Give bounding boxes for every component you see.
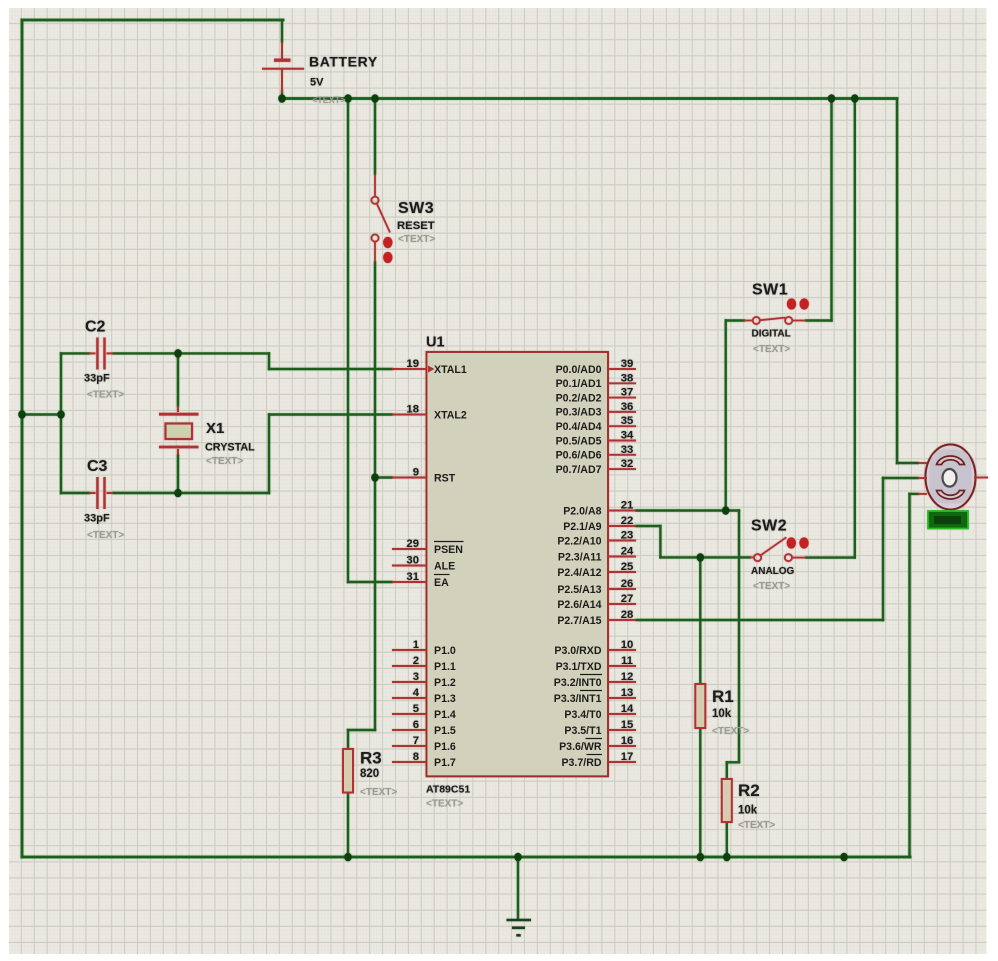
wire cap column vertical: [60, 353, 62, 493]
wire RST node to pin 9: [375, 476, 392, 478]
junction SW2 / top rail: [851, 94, 859, 103]
svg-text:P2.3/A11: P2.3/A11: [558, 551, 602, 563]
svg-text:DIGITAL: DIGITAL: [752, 329, 791, 340]
svg-text:P3.4/T0: P3.4/T0: [564, 709, 601, 721]
svg-text:<TEXT>: <TEXT>: [738, 820, 775, 831]
svg-text:RESET: RESET: [397, 220, 435, 232]
svg-text:P2.1/A9: P2.1/A9: [563, 521, 601, 533]
svg-text:29: 29: [406, 538, 419, 550]
svg-text:P0.2/AD2: P0.2/AD2: [556, 392, 602, 404]
motor pin stubs: [918, 463, 988, 494]
svg-text:11: 11: [621, 655, 633, 667]
svg-text:5V: 5V: [310, 77, 324, 89]
svg-text:33: 33: [621, 444, 634, 456]
junction SW1 / top rail: [828, 94, 836, 103]
wire to SW2 left terminal: [660, 556, 750, 558]
svg-text:5: 5: [413, 703, 419, 715]
junction R1 / ground rail: [697, 853, 705, 862]
svg-text:SW2: SW2: [751, 518, 787, 535]
svg-text:8: 8: [413, 751, 419, 763]
pin 9 RST: [392, 477, 427, 479]
svg-text:R3: R3: [360, 749, 382, 768]
junction R3 / ground rail: [344, 853, 352, 862]
wire battery top lead upper: [281, 20, 283, 42]
wire to motor pin 1: [897, 462, 918, 464]
svg-text:17: 17: [621, 751, 634, 763]
battery BATTERY 5V: [262, 42, 304, 93]
wire to pin 18 XTAL2: [269, 413, 392, 415]
pin 11 P3.1/TXD: [608, 665, 636, 667]
svg-text:34: 34: [621, 430, 634, 442]
svg-text:4: 4: [413, 687, 420, 699]
overline INT0: [580, 674, 602, 676]
junction battery / top rail: [278, 94, 286, 103]
pin 15 P3.5/T1: [608, 729, 636, 731]
pin 30 ALE: [392, 565, 427, 567]
wire pin 28 out: [636, 619, 883, 621]
svg-text:<TEXT>: <TEXT>: [398, 234, 435, 245]
svg-text:P0.0/AD0: P0.0/AD0: [556, 364, 602, 376]
junction SW3 / top rail: [371, 94, 379, 103]
svg-text:P0.6/AD6: P0.6/AD6: [556, 450, 602, 462]
svg-text:25: 25: [621, 561, 634, 573]
wire top power rail: [282, 97, 897, 100]
pin 2 P1.1: [392, 665, 427, 667]
wire R2 bottom lead to rail: [726, 824, 728, 857]
svg-text:C3: C3: [87, 458, 108, 475]
wire RST node down: [374, 478, 376, 731]
pin 3 P1.2: [392, 681, 427, 683]
svg-text:P2.0/A8: P2.0/A8: [563, 505, 601, 517]
overline EA: [434, 574, 450, 576]
wire jog to R2: [727, 761, 739, 763]
svg-text:33pF: 33pF: [84, 372, 110, 384]
wire SW2 to top rail: [854, 99, 856, 558]
pin 18 XTAL2: [392, 414, 427, 416]
svg-text:P2.6/A14: P2.6/A14: [557, 599, 601, 611]
svg-text:24: 24: [621, 546, 634, 558]
svg-text:2: 2: [413, 655, 419, 667]
svg-text:12: 12: [621, 671, 634, 683]
pin 36 P0.3/AD3: [608, 411, 636, 413]
wire C3 to corner: [113, 492, 269, 494]
wire R1 bottom lead to rail: [699, 728, 701, 857]
svg-text:14: 14: [621, 703, 634, 715]
svg-text:R2: R2: [738, 781, 760, 800]
pin 24 P2.3/A11: [608, 556, 636, 558]
pin 6 P1.5: [392, 729, 427, 731]
wire motor pin 3 to ground rail: [908, 494, 910, 857]
wire left rail to cap column: [22, 413, 61, 415]
svg-text:9: 9: [413, 467, 419, 479]
svg-text:P2.4/A12: P2.4/A12: [557, 567, 601, 579]
svg-text:P0.1/AD1: P0.1/AD1: [556, 378, 602, 390]
svg-text:P1.1: P1.1: [434, 661, 456, 673]
svg-text:SW1: SW1: [752, 282, 788, 299]
pin 39 P0.0/AD0: [608, 368, 636, 370]
svg-text:<TEXT>: <TEXT>: [712, 726, 749, 737]
svg-text:PSEN: PSEN: [434, 544, 463, 556]
svg-text:X1: X1: [206, 420, 224, 437]
junction ground rail dot: [840, 853, 848, 862]
overline INT1: [580, 690, 602, 692]
svg-text:37: 37: [621, 387, 634, 399]
junction cap column: [57, 410, 65, 419]
pin 12 P3.2/INT0: [608, 681, 636, 683]
overline PSEN: [434, 541, 464, 543]
wire bottom ground rail: [22, 856, 910, 859]
XTAL1 input arrow: [428, 366, 435, 373]
wire to C3 left plate: [61, 492, 89, 494]
svg-text:P3.6/WR: P3.6/WR: [559, 741, 602, 753]
svg-text:26: 26: [621, 578, 634, 590]
crystal X1: [159, 406, 199, 455]
junction ground symbol / rail: [514, 853, 522, 862]
svg-text:P3.1/TXD: P3.1/TXD: [556, 661, 602, 673]
ground symbol: [507, 920, 532, 935]
svg-text:P1.6: P1.6: [434, 741, 456, 753]
svg-text:<TEXT>: <TEXT>: [206, 456, 243, 467]
svg-text:<TEXT>: <TEXT>: [312, 95, 346, 105]
wire R2 top lead: [726, 762, 728, 779]
wire to pin 19 XTAL1: [269, 368, 392, 370]
svg-text:30: 30: [406, 555, 419, 567]
pin 23 P2.2/A10: [608, 540, 636, 542]
wire left rail vertical: [21, 20, 24, 857]
svg-text:820: 820: [360, 768, 379, 780]
overline RD: [587, 754, 603, 756]
wire pin21 down to R2 jog: [738, 511, 740, 763]
pin 13 P3.3/INT1: [608, 697, 636, 699]
pin 27 P2.6/A14: [608, 603, 636, 605]
svg-text:15: 15: [621, 719, 634, 731]
wire down to SW2 row: [659, 526, 661, 557]
capacitor C3 33pF: [89, 477, 113, 509]
switch SW2 ANALOG (open): [750, 537, 806, 561]
svg-text:P2.7/A15: P2.7/A15: [557, 615, 601, 627]
svg-text:CRYSTAL: CRYSTAL: [205, 442, 255, 454]
svg-text:21: 21: [621, 500, 634, 512]
pin 7 P1.6: [392, 745, 427, 747]
overline WR: [586, 738, 603, 740]
capacitor C2 33pF: [89, 338, 113, 370]
svg-text:13: 13: [621, 687, 634, 699]
pin 31 EA: [392, 581, 427, 583]
wire SW1 right terminal to vertical: [806, 319, 832, 321]
wire C2 node down to crystal: [177, 353, 179, 406]
pin 37 P0.2/AD2: [608, 397, 636, 399]
svg-text:<TEXT>: <TEXT>: [87, 390, 124, 401]
wire SW2 right terminal out: [806, 556, 855, 558]
pin 16 P3.6/WR: [608, 745, 636, 747]
svg-text:P0.5/AD5: P0.5/AD5: [556, 435, 602, 447]
wire battery bottom lead to rail: [281, 91, 283, 99]
svg-text:36: 36: [621, 401, 634, 413]
svg-text:38: 38: [621, 372, 634, 384]
wire right vertical to motor top pin: [896, 99, 898, 464]
wire jog to R3: [348, 729, 375, 731]
wire R1 top lead: [699, 557, 701, 684]
wire up to motor pin 2: [882, 478, 884, 620]
pin 17 P3.7/RD: [608, 761, 636, 763]
junction C2 / crystal node: [174, 349, 182, 358]
SW3 actuator dots: [383, 237, 392, 248]
pin 33 P0.6/AD6: [608, 454, 636, 456]
svg-text:P1.7: P1.7: [434, 757, 456, 769]
svg-text:EA: EA: [434, 577, 449, 589]
svg-text:P1.2: P1.2: [434, 677, 456, 689]
pin 32 P0.7/AD7: [608, 468, 636, 470]
svg-text:XTAL2: XTAL2: [434, 409, 467, 421]
junction SW2 row / R1: [697, 553, 705, 562]
wire SW1 left vertical: [725, 321, 727, 511]
svg-text:10k: 10k: [712, 708, 732, 720]
switch SW3 RESET (push, open): [371, 174, 390, 262]
svg-text:19: 19: [406, 358, 419, 370]
wire pin 22 out: [636, 525, 660, 527]
svg-text:P1.4: P1.4: [434, 709, 456, 721]
svg-text:10: 10: [621, 639, 634, 651]
svg-text:BATTERY: BATTERY: [309, 54, 378, 70]
wire SW1 to top rail: [830, 99, 832, 321]
SW2 actuator dots: [787, 537, 796, 548]
svg-text:33pF: 33pF: [84, 513, 110, 525]
svg-text:P3.5/T1: P3.5/T1: [564, 725, 601, 737]
svg-text:<TEXT>: <TEXT>: [426, 799, 463, 810]
svg-text:RST: RST: [434, 472, 456, 484]
pin 34 P0.5/AD5: [608, 440, 636, 442]
svg-text:P1.0: P1.0: [434, 645, 456, 657]
svg-text:1: 1: [413, 639, 419, 651]
svg-text:XTAL1: XTAL1: [434, 364, 467, 376]
svg-text:P0.7/AD7: P0.7/AD7: [556, 464, 602, 476]
svg-text:27: 27: [621, 593, 634, 605]
junction RST node: [371, 473, 379, 482]
svg-text:P1.5: P1.5: [434, 725, 456, 737]
svg-text:<TEXT>: <TEXT>: [87, 530, 124, 541]
junction R2 / ground rail: [723, 853, 731, 862]
wire R3 top lead: [347, 730, 349, 749]
svg-text:6: 6: [413, 719, 419, 731]
svg-text:23: 23: [621, 530, 634, 542]
wire motor pin 3 out: [910, 493, 919, 495]
pin 29 PSEN: [392, 548, 427, 550]
wire to C2 left plate: [61, 352, 89, 354]
svg-text:P0.4/AD4: P0.4/AD4: [556, 421, 602, 433]
svg-text:P2.2/A10: P2.2/A10: [557, 535, 601, 547]
pin 38 P0.1/AD1: [608, 382, 636, 384]
svg-text:32: 32: [621, 458, 634, 470]
svg-text:31: 31: [406, 571, 419, 583]
svg-text:3: 3: [413, 671, 419, 683]
junction left rail / cap feed: [18, 410, 26, 419]
wire SW3 to RST node: [374, 262, 376, 478]
pin 26 P2.5/A13: [608, 588, 636, 590]
pin 1 P1.0: [392, 649, 427, 651]
wire to pin 31 EA: [348, 581, 392, 583]
pin 25 P2.4/A12: [608, 571, 636, 573]
svg-text:R1: R1: [712, 687, 734, 706]
svg-text:28: 28: [621, 609, 634, 621]
wire ground stem: [517, 857, 519, 919]
wire top rail to SW3: [374, 99, 376, 175]
resistor R1 10k: [695, 684, 705, 728]
wire crystal to C3 node: [177, 455, 179, 493]
svg-text:16: 16: [621, 735, 634, 747]
pin 28 P2.7/A15: [608, 619, 636, 621]
motor rpm display: [928, 511, 968, 529]
svg-text:SW3: SW3: [398, 200, 434, 217]
svg-text:22: 22: [621, 515, 634, 527]
svg-text:P0.3/AD3: P0.3/AD3: [556, 407, 602, 419]
pin 5 P1.4: [392, 713, 427, 715]
svg-text:7: 7: [413, 735, 419, 747]
resistor R2 10k: [722, 779, 732, 822]
svg-text:<TEXT>: <TEXT>: [753, 581, 790, 592]
svg-text:ALE: ALE: [434, 560, 455, 572]
wire C2 to corner: [113, 352, 269, 354]
pin 22 P2.1/A9: [608, 525, 636, 527]
svg-text:10k: 10k: [738, 805, 758, 817]
svg-text:U1: U1: [426, 335, 445, 351]
wire corner down to XTAL1 row: [268, 353, 270, 369]
svg-text:P3.3/INT1: P3.3/INT1: [554, 693, 602, 705]
wire corner up to XTAL2 row: [268, 415, 270, 494]
junction EA rail / top rail: [344, 94, 352, 103]
wire to motor pin 2: [883, 477, 918, 479]
svg-text:ANALOG: ANALOG: [751, 566, 795, 577]
svg-text:P3.0/RXD: P3.0/RXD: [554, 645, 601, 657]
switch SW1 DIGITAL (closed): [744, 317, 806, 324]
junction pin21 / SW1 branch: [722, 506, 730, 515]
pin 14 P3.4/T0: [608, 713, 636, 715]
pin 10 P3.0/RXD: [608, 649, 636, 651]
svg-text:35: 35: [621, 415, 634, 427]
wire pin 21 to SW1 column: [636, 509, 739, 511]
pin 4 P1.3: [392, 697, 427, 699]
svg-text:<TEXT>: <TEXT>: [753, 344, 790, 355]
junction C3 / crystal node: [174, 489, 182, 498]
motor (DC motor, right side): [926, 445, 976, 510]
pin 19 XTAL1: [392, 368, 427, 370]
svg-text:39: 39: [621, 358, 634, 370]
wire top rail to EA: [347, 99, 349, 583]
SW1 actuator dots: [787, 298, 796, 309]
chip U1 AT89C51 body: [427, 352, 609, 776]
svg-text:C2: C2: [85, 319, 106, 336]
wire to SW1 left terminal: [726, 319, 744, 321]
svg-text:P2.5/A13: P2.5/A13: [557, 584, 601, 596]
svg-text:AT89C51: AT89C51: [426, 784, 470, 796]
svg-text:P3.7/RD: P3.7/RD: [561, 757, 601, 769]
wire R3 bottom lead to rail: [347, 792, 349, 857]
pin 8 P1.7: [392, 761, 427, 763]
resistor R3 820: [343, 749, 353, 793]
wire top-left horizontal (battery+ to left rail): [22, 19, 283, 22]
svg-text:<TEXT>: <TEXT>: [360, 787, 397, 798]
svg-text:P3.2/INT0: P3.2/INT0: [554, 677, 602, 689]
svg-text:P1.3: P1.3: [434, 693, 456, 705]
pin 35 P0.4/AD4: [608, 425, 636, 427]
svg-text:18: 18: [406, 404, 419, 416]
pin 21 P2.0/A8: [608, 510, 636, 512]
